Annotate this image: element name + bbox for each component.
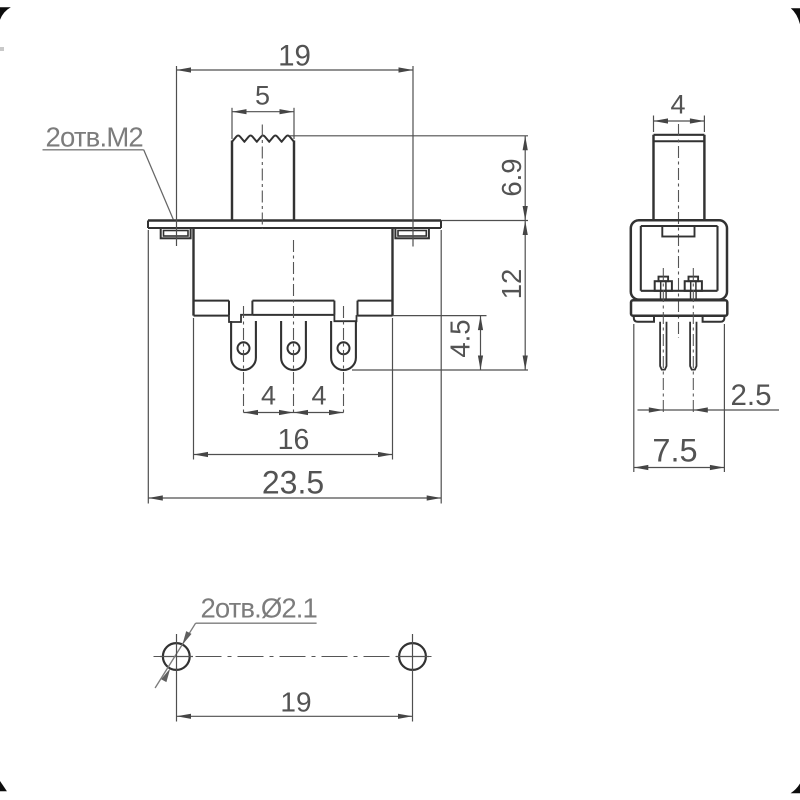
svg-text:19: 19 (278, 40, 311, 73)
dimension 16 (194, 424, 393, 457)
svg-text:2.5: 2.5 (730, 379, 771, 412)
dimension 7.5 (634, 433, 725, 471)
mounting hole left (bottom view) (163, 643, 190, 670)
terminal pin 1 (front view) (231, 321, 256, 370)
svg-text:4: 4 (261, 381, 276, 411)
svg-text:16: 16 (278, 424, 310, 456)
dimension 6.9 (496, 136, 528, 221)
dimension 4-4 (244, 381, 344, 416)
body bottom center block (252, 301, 334, 315)
pin 3 centerline (343, 306, 345, 415)
pin centerline left (side view) (662, 268, 664, 414)
pin 2 centerline (293, 240, 295, 415)
flange (side view) (631, 300, 727, 315)
solder pin left (side view) (660, 322, 666, 370)
svg-text:4: 4 (311, 381, 326, 411)
flange top plate (front view) (148, 221, 441, 229)
svg-text:12: 12 (496, 269, 527, 300)
body (side view) (631, 220, 727, 299)
left pin pocket (229, 315, 252, 322)
knob centerline (261, 125, 263, 230)
dimension 4 extension lines (side) (654, 116, 705, 133)
svg-text:2отв.М2: 2отв.М2 (46, 122, 143, 153)
edge smudge left (0, 47, 4, 51)
dimension 12 (496, 221, 528, 371)
actuator knob (front view) (232, 136, 294, 221)
body cavity (side view) (641, 226, 718, 291)
page corner mark top-right (791, 8, 800, 24)
terminal pin 2 (front view) (281, 321, 306, 370)
flange foot left (side view) (634, 316, 654, 322)
dimension 16 extension lines (194, 318, 393, 460)
dimension 7.5 extension lines (634, 324, 725, 472)
extension line flange top right (441, 220, 528, 222)
extension line pin bottom right (352, 369, 528, 371)
extension line shoulder bottom right (393, 315, 487, 317)
mounting hole right (bottom view) (399, 643, 426, 670)
body bottom right shoulder (358, 301, 393, 316)
flange foot right (side view) (703, 316, 725, 322)
svg-text:23.5: 23.5 (262, 465, 324, 501)
dimension 4.5 (445, 316, 484, 370)
svg-text:2отв.Ø2.1: 2отв.Ø2.1 (201, 592, 317, 623)
svg-text:6.9: 6.9 (496, 158, 527, 196)
dimension 19 (top) (177, 40, 414, 73)
page corner mark top-left (0, 7, 11, 20)
solder pin right (side view) (690, 322, 696, 370)
pin centerline right (side view) (692, 268, 694, 414)
label 2otv.D2.1 (196, 592, 317, 623)
svg-text:19: 19 (280, 687, 311, 718)
extension line knob top right (290, 135, 528, 137)
side view centerline (678, 124, 680, 338)
left mounting ear (161, 228, 191, 238)
pin 1 centerline (243, 306, 245, 415)
right pin pocket (334, 315, 356, 321)
leader line M2 (144, 150, 174, 220)
dimension 19 extension lines (bottom) (177, 634, 413, 722)
right mounting ear (395, 228, 429, 238)
svg-text:7.5: 7.5 (652, 433, 697, 469)
dimension 19 extension lines (177, 66, 414, 247)
page corner mark bottom-right (791, 784, 800, 794)
label 2otv.M2 (43, 122, 144, 153)
svg-text:4: 4 (670, 90, 685, 120)
knob (side view) (654, 135, 705, 221)
terminal contact left (side view) (655, 277, 672, 301)
knob slot (side view) (662, 226, 694, 237)
page corner mark bottom-left (0, 781, 7, 791)
body lid line (side view) (641, 225, 718, 227)
switch body (front view) (194, 228, 393, 316)
body bottom left shoulder (194, 301, 230, 316)
terminal contact right (side view) (685, 277, 702, 301)
svg-text:4.5: 4.5 (445, 319, 476, 357)
dimension 5 (232, 81, 294, 115)
dimension 23.5 extension lines (148, 230, 441, 504)
svg-text:5: 5 (255, 81, 270, 111)
bottom view centerline (154, 656, 436, 658)
terminal pin 3 (front view) (331, 321, 356, 370)
dimension 2.5 (side) (638, 379, 780, 413)
dimension 4 (side) (654, 90, 705, 124)
dimension 19 (bottom) (177, 687, 413, 719)
dimension 23.5 (148, 465, 441, 501)
leader line D2.1 (155, 623, 196, 688)
dimension 5 extension lines (232, 108, 294, 139)
